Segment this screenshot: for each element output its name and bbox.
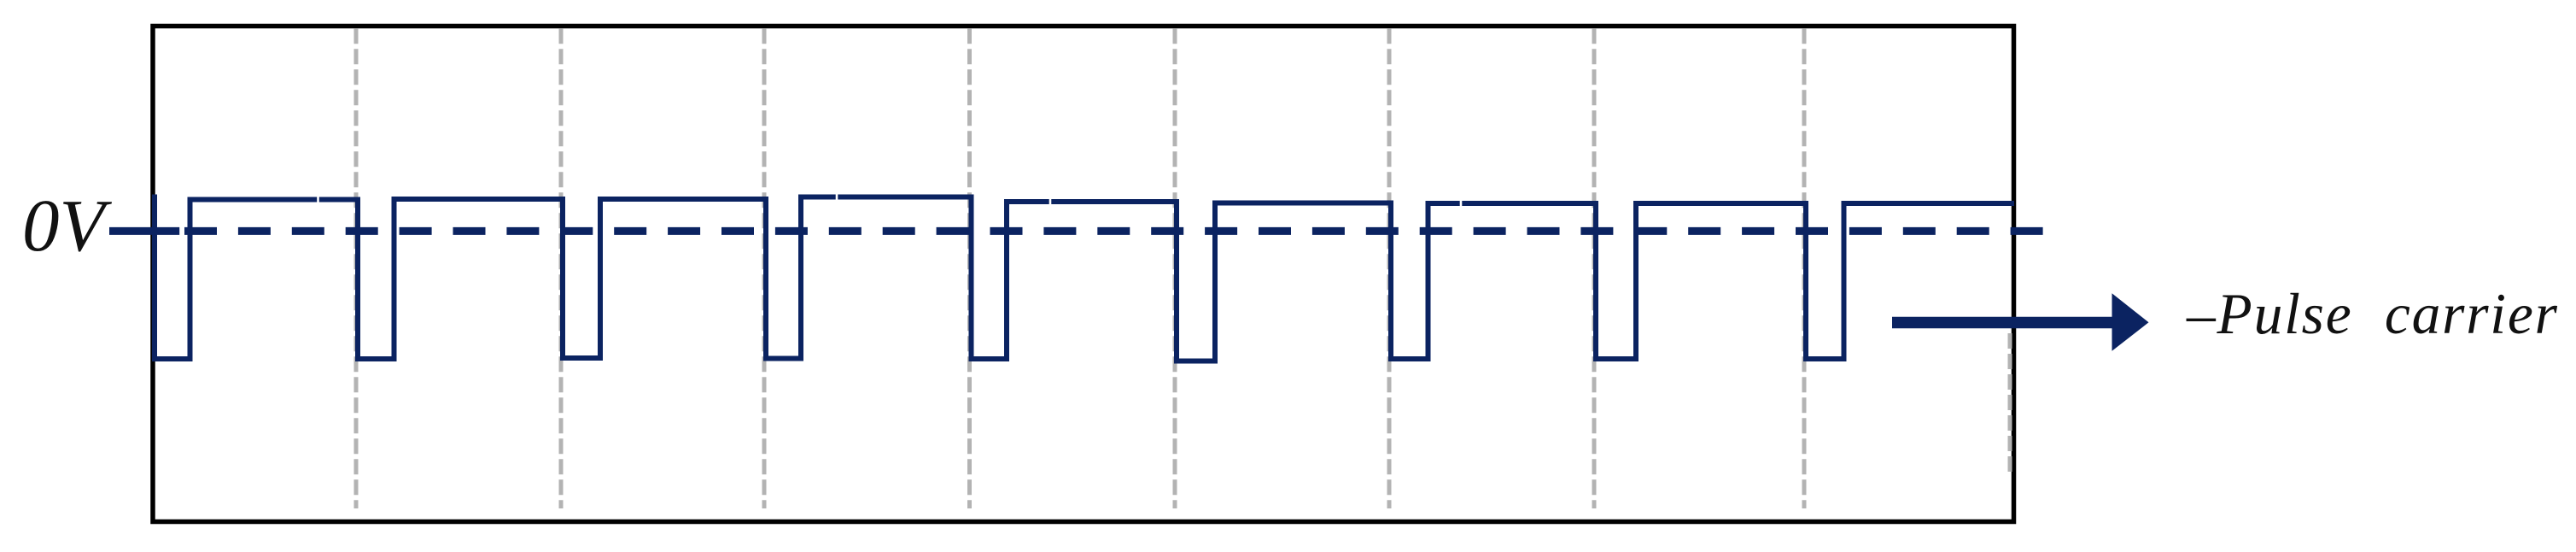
vertical gridline t3 <box>762 28 767 508</box>
segment join gap 4 <box>1460 198 1463 209</box>
arrow head <box>2112 293 2149 351</box>
0V dashed reference line <box>184 227 2043 235</box>
vertical gridline t9 <box>2008 333 2012 476</box>
segment join gap 2 <box>836 191 838 203</box>
pulse carrier waveform <box>155 195 2014 361</box>
vertical gridline t8 <box>1802 28 1807 508</box>
0V dashed reference line first long dash <box>109 227 179 235</box>
plot frame border <box>153 26 2014 522</box>
svg-text:–Pulse carrier: –Pulse carrier <box>2186 282 2559 346</box>
arrow shaft <box>1892 317 2114 329</box>
segment join gap 1 <box>317 194 319 205</box>
vertical gridline t4 <box>967 28 972 508</box>
vertical gridline t1 <box>354 28 359 508</box>
segment join gap 3 <box>1049 197 1052 208</box>
vertical gridline t5 <box>1173 28 1177 508</box>
svg-text:0V: 0V <box>22 184 113 267</box>
vertical gridline t2 <box>559 28 564 508</box>
vertical gridline t6 <box>1387 28 1392 508</box>
vertical gridline t7 <box>1592 28 1597 508</box>
